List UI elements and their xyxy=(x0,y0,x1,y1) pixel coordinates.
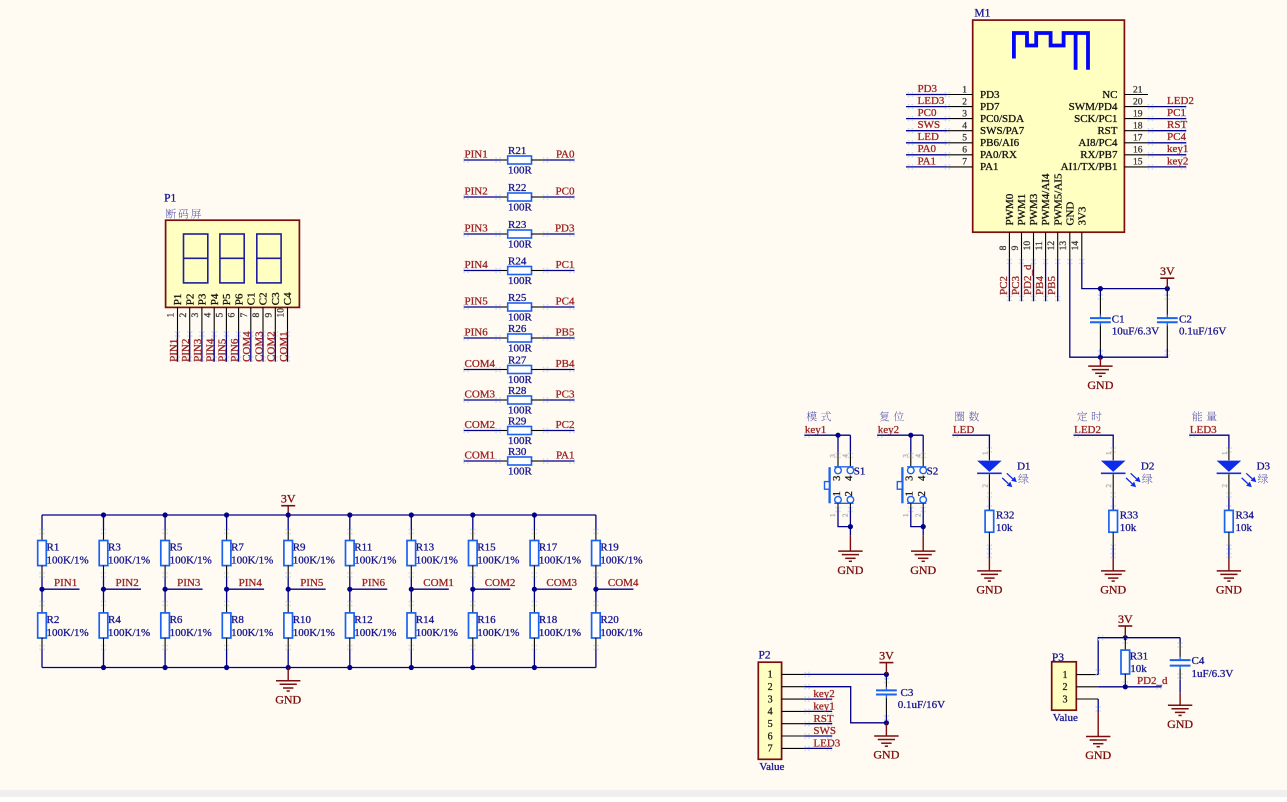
svg-text:COM2: COM2 xyxy=(465,419,496,431)
power symbol 3V (P2) xyxy=(879,649,894,675)
net label PIN4 (vertical) xyxy=(205,338,217,362)
svg-text:PC4: PC4 xyxy=(1167,131,1186,143)
wire net PIN6 from P1 pin 6 xyxy=(236,331,241,361)
svg-text:2: 2 xyxy=(1221,484,1229,488)
wire net PC4 from R25 xyxy=(543,304,575,309)
resistor R22 xyxy=(501,182,544,214)
svg-text:Value: Value xyxy=(759,761,784,773)
wire R33 to ground xyxy=(1111,544,1116,558)
wire net COM4 tap xyxy=(596,588,634,590)
net label COM1 xyxy=(423,577,454,589)
svg-text:7: 7 xyxy=(768,744,773,755)
capacitor C2 xyxy=(1157,289,1227,358)
net label PIN3 (vertical) xyxy=(192,338,204,362)
svg-text:19: 19 xyxy=(1133,109,1143,119)
svg-text:100R: 100R xyxy=(508,202,533,214)
svg-text:R7: R7 xyxy=(231,542,244,554)
resistor R16 xyxy=(469,589,520,667)
svg-text:PIN4: PIN4 xyxy=(205,338,217,362)
svg-text:COM2: COM2 xyxy=(266,331,278,362)
net label key2 xyxy=(1167,155,1188,167)
svg-text:P2: P2 xyxy=(184,294,196,306)
resistor R11 xyxy=(346,515,397,589)
svg-text:SWM/PD4: SWM/PD4 xyxy=(1069,101,1118,113)
svg-text:R10: R10 xyxy=(293,614,312,626)
net label COM2 (vertical) xyxy=(266,331,278,362)
wire net PA0 from R21 xyxy=(543,157,575,162)
pin 5 PB6/AI6 of M1 xyxy=(947,134,1019,150)
svg-text:GND: GND xyxy=(1167,717,1193,731)
wire net PD2_d from M1 pin 10 xyxy=(1031,259,1036,302)
svg-text:100K/1%: 100K/1% xyxy=(108,555,150,567)
pin 3 PC0/SDA of M1 xyxy=(947,109,1024,125)
svg-text:100K/1%: 100K/1% xyxy=(539,627,581,639)
svg-text:PWM3: PWM3 xyxy=(1028,193,1040,225)
svg-text:20: 20 xyxy=(1133,97,1143,107)
junction bottom rail col 6 xyxy=(347,665,352,670)
pin 2 PD7 of M1 xyxy=(947,97,1000,113)
net label PB5 xyxy=(556,326,575,338)
svg-text:R13: R13 xyxy=(416,542,435,554)
svg-text:GND: GND xyxy=(837,563,863,577)
svg-text:R3: R3 xyxy=(108,542,121,554)
net label COM3 xyxy=(546,577,577,589)
net label SWS xyxy=(918,119,941,131)
svg-text:D1: D1 xyxy=(1017,461,1030,473)
pin 15 AI1/TX/PB1 of M1 xyxy=(1061,158,1148,174)
junction R31 bottom / PD2_d xyxy=(1123,684,1128,689)
svg-text:1: 1 xyxy=(1105,451,1113,455)
svg-text:100K/1%: 100K/1% xyxy=(293,627,335,639)
svg-text:PIN4: PIN4 xyxy=(239,577,263,589)
svg-text:1: 1 xyxy=(1221,451,1229,455)
net label PA0 xyxy=(556,148,575,160)
junction mid tap col 9 xyxy=(532,587,537,592)
net label PIN1 xyxy=(465,148,488,160)
wire net PIN1 tap xyxy=(42,588,80,590)
resistor R13 xyxy=(407,515,458,589)
resistor R32 xyxy=(985,510,1014,545)
resistor R26 xyxy=(501,323,544,355)
svg-text:P3: P3 xyxy=(197,293,209,305)
pin 9 PWM1 of M1 xyxy=(1011,194,1028,259)
svg-text:R19: R19 xyxy=(600,542,619,554)
svg-text:3: 3 xyxy=(829,454,837,458)
svg-text:COM4: COM4 xyxy=(241,331,253,362)
junction mid tap col 4 xyxy=(224,587,229,592)
svg-text:9: 9 xyxy=(264,313,274,318)
svg-text:R26: R26 xyxy=(508,323,527,335)
svg-text:3V: 3V xyxy=(1118,612,1133,626)
svg-text:100R: 100R xyxy=(508,275,533,287)
resistor R24 xyxy=(501,256,544,288)
svg-text:PC3: PC3 xyxy=(556,388,575,400)
svg-text:COM1: COM1 xyxy=(278,331,290,362)
mcu U/M1 body xyxy=(973,8,1125,233)
svg-text:12: 12 xyxy=(1047,241,1057,251)
svg-text:PIN2: PIN2 xyxy=(180,339,192,362)
svg-text:D2: D2 xyxy=(1141,461,1154,473)
net label PIN4 xyxy=(239,577,263,589)
junction top rail col 8 xyxy=(470,512,475,517)
node bottom rail col 10 xyxy=(0,0,1,1)
pin 7 PA1 of M1 xyxy=(947,158,998,174)
resistor R12 xyxy=(346,589,397,667)
wire net PIN5 to R25 xyxy=(463,304,500,309)
pin 6 PA0/RX of M1 xyxy=(947,146,1017,162)
svg-text:COM1: COM1 xyxy=(465,449,496,461)
pin 9 C3 of P1 xyxy=(264,292,282,331)
svg-text:R17: R17 xyxy=(539,542,558,554)
net label LED xyxy=(918,131,939,143)
wire net SWS to M1 pin 4 xyxy=(906,128,950,133)
wire net LED3 to M1 pin 2 xyxy=(906,104,950,109)
net label PC4 xyxy=(1167,131,1186,143)
wire net COM1 tap xyxy=(411,588,449,590)
svg-text:NC: NC xyxy=(1102,89,1117,101)
ground symbol GND under R33 xyxy=(1100,558,1126,597)
LED D1 xyxy=(977,448,1030,499)
svg-text:GND: GND xyxy=(910,563,936,577)
net label SWS xyxy=(813,725,836,737)
label 定时 (LED2) xyxy=(1077,411,1101,421)
svg-text:R14: R14 xyxy=(416,614,435,626)
wire net COM2 tap xyxy=(473,588,511,590)
net label RST xyxy=(813,713,833,725)
junction bottom rail col 9 xyxy=(532,665,537,670)
wire net PA1 from R30 xyxy=(543,458,575,463)
net label LED3 xyxy=(813,738,840,750)
svg-text:16: 16 xyxy=(1133,146,1143,156)
svg-text:1: 1 xyxy=(829,513,837,517)
pin 2 of P3 xyxy=(1063,682,1099,693)
net label COM2 xyxy=(465,419,496,431)
svg-text:100K/1%: 100K/1% xyxy=(231,555,273,567)
wire net COM2 from P1 pin 9 xyxy=(273,331,278,361)
svg-text:S2: S2 xyxy=(927,465,939,477)
svg-text:SWS: SWS xyxy=(918,119,941,131)
pin 2 P2 of P1 xyxy=(179,294,197,332)
svg-text:7: 7 xyxy=(962,158,967,168)
resistor R30 xyxy=(501,446,544,478)
net label PIN2 (vertical) xyxy=(180,339,192,362)
svg-text:1: 1 xyxy=(962,85,967,95)
svg-text:2: 2 xyxy=(842,513,850,517)
net label PB4 xyxy=(1034,276,1046,295)
node bottom rail col 1 xyxy=(0,0,1,1)
pin 1 P1 of P1 xyxy=(167,294,185,332)
svg-text:R11: R11 xyxy=(354,542,372,554)
svg-text:PIN1: PIN1 xyxy=(465,148,488,160)
wire S1 to ground xyxy=(835,507,853,536)
svg-text:LED2: LED2 xyxy=(1167,95,1194,107)
wire net PD3 from R23 xyxy=(543,231,575,236)
net label PC2 xyxy=(998,276,1010,295)
svg-text:15: 15 xyxy=(1133,158,1143,168)
wire net PC0 to M1 pin 3 xyxy=(906,116,950,121)
svg-text:GND: GND xyxy=(275,693,301,707)
wire net PD3 to M1 pin 1 xyxy=(906,92,950,97)
resistor R21 xyxy=(501,145,544,177)
power symbol 3V (P3) xyxy=(1118,612,1133,638)
svg-text:key1: key1 xyxy=(805,424,826,436)
net label PIN1 xyxy=(54,577,77,589)
svg-text:3: 3 xyxy=(902,454,910,458)
net label PA0 xyxy=(918,143,937,155)
junction top rail col 7 xyxy=(409,512,414,517)
wire net key2 to M1 pin 15 xyxy=(1148,164,1187,169)
pin 5 of P2 xyxy=(768,719,805,730)
svg-text:4: 4 xyxy=(842,454,850,458)
resistor R23 xyxy=(501,219,544,251)
wire net PC1 from R24 xyxy=(543,268,575,273)
junction top rail col 6 xyxy=(347,512,352,517)
net label PC0 xyxy=(556,185,575,197)
wire net LED3 to D3 xyxy=(1189,433,1231,453)
junction mid tap col 5 xyxy=(286,587,291,592)
wire net PIN1 to R21 xyxy=(463,157,500,162)
junction C1 top xyxy=(1098,286,1103,291)
svg-text:3: 3 xyxy=(768,694,773,705)
wire P3 pin3 to ground xyxy=(1096,699,1101,712)
svg-text:100K/1%: 100K/1% xyxy=(47,627,89,639)
svg-text:PIN4: PIN4 xyxy=(465,259,489,271)
svg-text:6: 6 xyxy=(768,731,773,742)
junction C3 bottom / GND xyxy=(884,720,889,725)
svg-text:1: 1 xyxy=(902,513,910,517)
svg-text:P4: P4 xyxy=(209,293,221,305)
svg-text:100R: 100R xyxy=(508,165,533,177)
ground symbol GND under R32 xyxy=(976,558,1002,597)
resistor R8 xyxy=(222,589,273,667)
resistor R31 xyxy=(1121,638,1148,687)
wire M1 pin13 GND to ground rail xyxy=(1067,259,1168,357)
resistor R7 xyxy=(222,515,273,589)
svg-text:PC0: PC0 xyxy=(556,185,575,197)
pin 5 P5 of P1 xyxy=(216,293,234,331)
label 能量 (LED3) xyxy=(1192,411,1216,421)
svg-text:100K/1%: 100K/1% xyxy=(354,627,396,639)
pin 7 C1 of P1 xyxy=(240,292,258,331)
svg-text:SCK/PC1: SCK/PC1 xyxy=(1074,113,1117,125)
svg-text:COM2: COM2 xyxy=(485,577,516,589)
resistor R4 xyxy=(99,589,150,667)
svg-text:2: 2 xyxy=(981,484,989,488)
svg-text:R9: R9 xyxy=(293,542,306,554)
pin 3 of P3 xyxy=(1063,694,1099,705)
wire net PIN4 from P1 pin 4 xyxy=(212,331,217,361)
pin 19 SCK/PC1 of M1 xyxy=(1074,109,1148,125)
resistor R3 xyxy=(99,515,150,589)
net label key1 xyxy=(805,424,826,436)
junction 3V rail / R31 top xyxy=(1123,635,1128,640)
svg-text:RX/PB7: RX/PB7 xyxy=(1080,149,1118,161)
svg-text:3: 3 xyxy=(832,476,843,481)
svg-text:100K/1%: 100K/1% xyxy=(170,555,212,567)
wire S2 to ground xyxy=(908,507,926,536)
pin 8 C2 of P1 xyxy=(252,292,270,331)
digit 3 glyph of P1 xyxy=(257,234,281,283)
svg-text:R16: R16 xyxy=(477,614,496,626)
svg-text:R29: R29 xyxy=(508,416,527,428)
wire net PC3 from R28 xyxy=(543,397,575,402)
wire P3 pin1 to 3V rail xyxy=(1096,635,1181,675)
svg-text:PC0/SDA: PC0/SDA xyxy=(980,113,1024,125)
pin 3 P3 of P1 xyxy=(191,293,209,331)
wire net PIN3 to R23 xyxy=(463,231,500,236)
wire net PIN2 tap xyxy=(104,588,142,590)
wire net key1 to M1 pin 16 xyxy=(1148,152,1187,157)
ground symbol GND under P3 xyxy=(1085,712,1111,762)
svg-text:2: 2 xyxy=(179,313,189,318)
svg-text:PB5: PB5 xyxy=(556,326,575,338)
wire net PD2_d from P3 pin2 xyxy=(1098,684,1162,689)
resistor R17 xyxy=(530,515,581,589)
wire net RST to M1 pin 18 xyxy=(1148,128,1187,133)
net label PD2_d xyxy=(1022,264,1034,295)
svg-text:8: 8 xyxy=(252,313,262,318)
svg-text:P1: P1 xyxy=(172,294,184,306)
resistor R18 xyxy=(530,589,581,667)
svg-text:GND: GND xyxy=(1085,748,1111,762)
svg-text:AI1/TX/PB1: AI1/TX/PB1 xyxy=(1061,161,1118,173)
net label PIN5 xyxy=(465,295,489,307)
net label LED3 xyxy=(918,95,945,107)
svg-text:S1: S1 xyxy=(854,465,866,477)
svg-text:LED3: LED3 xyxy=(1190,424,1217,436)
wire net PC4 to M1 pin 17 xyxy=(1148,140,1187,145)
wire net PIN3 from P1 pin 3 xyxy=(199,331,204,361)
wire net LED2 to M1 pin 20 xyxy=(1148,104,1187,109)
net label PC3 xyxy=(556,388,575,400)
svg-text:PWM5/AI5: PWM5/AI5 xyxy=(1052,173,1064,225)
junction S2 ground wire xyxy=(921,524,926,529)
net label key1 xyxy=(813,701,834,713)
wire net COM4 to R27 xyxy=(463,367,500,372)
svg-text:key2: key2 xyxy=(1167,155,1188,167)
svg-text:GND: GND xyxy=(1064,202,1076,226)
junction top rail col 9 xyxy=(532,512,537,517)
svg-text:R15: R15 xyxy=(477,542,496,554)
junction mid tap col 8 xyxy=(470,587,475,592)
wire net key1 from P2 pin 4 xyxy=(804,709,832,714)
svg-text:100R: 100R xyxy=(508,312,533,324)
net label LED3 xyxy=(1190,424,1217,436)
wire P2 pin1 to 3V / C3 xyxy=(804,672,886,677)
resistor R9 xyxy=(284,515,335,589)
svg-text:PC2: PC2 xyxy=(998,276,1010,295)
svg-text:100K/1%: 100K/1% xyxy=(47,555,89,567)
antenna symbol inside M1 xyxy=(1014,33,1088,70)
svg-text:11: 11 xyxy=(1035,241,1045,250)
net label PB4 xyxy=(556,358,575,370)
net label PD3 xyxy=(918,83,938,95)
junction C1 bottom / GND xyxy=(1098,355,1103,360)
junction mid tap col 2 xyxy=(101,587,106,592)
ground symbol GND under R34 xyxy=(1216,558,1242,597)
wire M1 pin14 3V3 to 3V rail xyxy=(1079,259,1167,289)
resistor R6 xyxy=(161,589,212,667)
net label PC2 xyxy=(556,419,575,431)
net label PIN2 xyxy=(116,577,139,589)
pin 10 PWM3 of M1 xyxy=(1023,193,1040,259)
svg-text:COM1: COM1 xyxy=(423,577,454,589)
resistor R15 xyxy=(469,515,520,589)
wire net LED3 from P2 pin 7 xyxy=(804,746,832,751)
svg-text:LED: LED xyxy=(953,424,974,436)
capacitor C1 xyxy=(1090,289,1159,358)
svg-text:PWM1: PWM1 xyxy=(1016,194,1028,226)
svg-text:10k: 10k xyxy=(996,522,1013,534)
resistor R34 xyxy=(1225,510,1255,545)
svg-text:PIN3: PIN3 xyxy=(465,222,489,234)
svg-text:P5: P5 xyxy=(221,293,233,305)
svg-text:100K/1%: 100K/1% xyxy=(231,627,273,639)
svg-text:2: 2 xyxy=(768,682,773,693)
net label RST xyxy=(1167,119,1187,131)
svg-text:PA0: PA0 xyxy=(918,143,937,155)
svg-text:PC1: PC1 xyxy=(556,259,575,271)
svg-text:1uF/6.3V: 1uF/6.3V xyxy=(1192,668,1234,680)
power symbol 3V (top right) xyxy=(1160,264,1175,288)
svg-text:R34: R34 xyxy=(1236,510,1255,522)
wire 3V top rail of divider network xyxy=(42,514,596,516)
svg-text:RST: RST xyxy=(813,713,833,725)
net label COM2 xyxy=(485,577,516,589)
wire net COM3 tap xyxy=(534,588,572,590)
pin 21 NC of M1 xyxy=(1102,85,1148,101)
svg-text:PC4: PC4 xyxy=(556,295,575,307)
junction mid tap col 1 xyxy=(39,587,44,592)
pin 3 of P2 xyxy=(768,694,805,705)
resistor R2 xyxy=(38,589,89,667)
svg-text:PB6/AI6: PB6/AI6 xyxy=(980,137,1020,149)
svg-text:COM3: COM3 xyxy=(465,388,496,400)
svg-text:R28: R28 xyxy=(508,385,527,397)
label 断码屏 (segment display) xyxy=(166,209,201,219)
svg-text:PA1: PA1 xyxy=(918,155,937,167)
svg-text:key1: key1 xyxy=(813,701,834,713)
svg-text:COM4: COM4 xyxy=(608,577,639,589)
svg-text:PB4: PB4 xyxy=(1034,276,1046,295)
svg-text:COM4: COM4 xyxy=(465,358,496,370)
wire net PC2 from R29 xyxy=(543,428,575,433)
net label PC1 xyxy=(556,259,575,271)
wire net COM3 to R28 xyxy=(463,397,500,402)
svg-text:PA1: PA1 xyxy=(980,161,999,173)
ground symbol GND under S2 xyxy=(910,536,936,577)
svg-text:PIN3: PIN3 xyxy=(192,338,204,362)
junction mid tap col 7 xyxy=(409,587,414,592)
pin 18 RST of M1 xyxy=(1097,122,1148,138)
svg-text:100K/1%: 100K/1% xyxy=(354,555,396,567)
pin 1 PD3 of M1 xyxy=(947,85,1000,101)
svg-text:C3: C3 xyxy=(901,687,914,699)
svg-text:GND: GND xyxy=(1087,378,1113,392)
wire net COM2 to R29 xyxy=(463,428,500,433)
svg-text:PD2_d: PD2_d xyxy=(1137,675,1168,687)
svg-text:100K/1%: 100K/1% xyxy=(170,627,212,639)
svg-text:10k: 10k xyxy=(1120,522,1137,534)
label 模式 (key1) xyxy=(807,411,831,421)
svg-text:R32: R32 xyxy=(996,510,1014,522)
svg-text:C2: C2 xyxy=(258,292,270,305)
svg-text:PD2_d: PD2_d xyxy=(1022,264,1034,295)
svg-text:R6: R6 xyxy=(170,614,183,626)
svg-text:R31: R31 xyxy=(1130,651,1148,663)
label 复位 (key2) xyxy=(880,411,904,421)
net label PA1 xyxy=(556,449,575,461)
